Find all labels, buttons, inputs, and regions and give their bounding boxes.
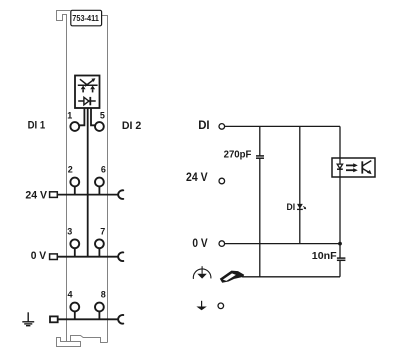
- svg-text:1: 1: [67, 110, 72, 120]
- svg-text:0 V: 0 V: [192, 238, 207, 250]
- svg-text:7: 7: [100, 227, 105, 237]
- svg-text:24 V: 24 V: [186, 172, 208, 184]
- svg-text:6: 6: [101, 165, 106, 175]
- svg-text:DI: DI: [287, 202, 296, 213]
- svg-text:24 V: 24 V: [25, 189, 47, 201]
- svg-text:753-411: 753-411: [72, 13, 99, 23]
- svg-text:0 V: 0 V: [31, 250, 47, 262]
- svg-text:8: 8: [101, 290, 106, 300]
- svg-text:DI 1: DI 1: [28, 120, 46, 132]
- svg-text:5: 5: [100, 111, 105, 121]
- svg-text:2: 2: [68, 165, 73, 175]
- svg-text:3: 3: [67, 227, 72, 237]
- svg-text:4: 4: [67, 290, 72, 300]
- svg-text:DI: DI: [198, 120, 209, 132]
- svg-text:DI 2: DI 2: [122, 120, 141, 132]
- svg-text:10nF: 10nF: [312, 251, 337, 262]
- svg-text:270pF: 270pF: [224, 149, 252, 160]
